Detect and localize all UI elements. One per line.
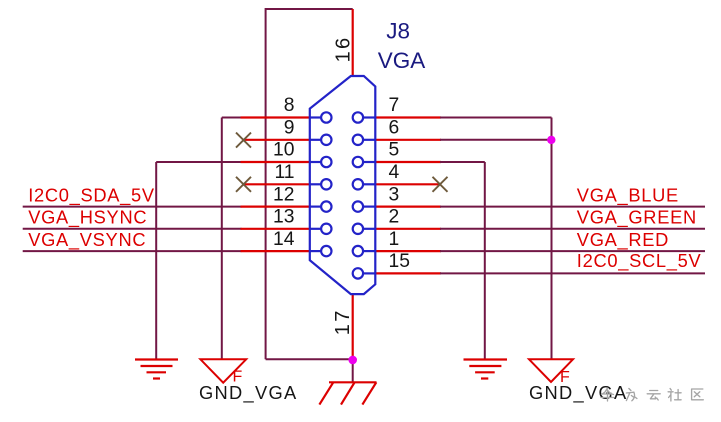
wire row3 VGA_BLUE [440,206,705,208]
wire row8 vertical to left GND_VGA port [221,118,223,360]
wire row5 horizontal [440,161,485,163]
pin 16 [352,9,354,76]
svg-text:12: 12 [273,184,294,205]
wire row10 vertical to left ground [155,162,157,359]
svg-text:4: 4 [389,162,400,183]
chassis ground [319,382,376,404]
wire row8 horizontal [222,117,242,119]
svg-text:2: 2 [389,207,400,228]
junction dot at shield node [348,356,357,365]
wire row1 VGA_RED [440,250,705,252]
pin 13 [241,228,310,230]
pin stubs and circles left column [310,112,331,256]
svg-text:7: 7 [389,95,400,116]
svg-text:1: 1 [389,229,400,250]
pin 2 [375,228,441,230]
pin 14 [241,250,310,252]
wire bottom horizontal to chassis junction [266,358,353,360]
svg-text:15: 15 [389,251,410,272]
wire row12 I2C0_SDA_5V [23,206,242,208]
ground right (signal gnd bars) [464,360,508,379]
pin 5 [375,161,441,163]
pin 1 [375,250,441,252]
svg-text:9: 9 [284,118,295,139]
power port GND_VGA right triangle [529,359,573,382]
pin 4 [375,183,441,185]
wire row13 VGA_HSYNC [23,228,242,230]
svg-text:I2C0_SDA_5V: I2C0_SDA_5V [28,184,155,206]
pin 11 [243,183,309,185]
svg-text:10: 10 [273,140,294,161]
wire row6 horizontal [440,139,552,141]
pin 8 [241,116,310,118]
svg-text:17: 17 [332,308,354,335]
power port GND_VGA left triangle [200,359,246,382]
wire row2 VGA_GREEN [440,228,705,230]
wire row10 horizontal [156,161,241,163]
wire row5 vertical to right ground [484,162,486,360]
pin 17 [352,294,354,360]
svg-text:13: 13 [273,207,294,228]
no-ERC cross on pin 4 [433,177,448,192]
svg-text:6: 6 [389,118,400,139]
svg-text:GND_VGA: GND_VGA [529,382,628,404]
no-ERC cross on pin 9 [236,133,251,148]
svg-text:I2C0_SCL_5V: I2C0_SCL_5V [577,250,702,272]
connector J8 body [310,76,376,294]
wire stub from junction down to chassis ground [352,359,354,382]
ground left (signal gnd bars) [135,360,178,379]
watermark [601,388,703,401]
svg-text:VGA: VGA [378,48,426,73]
svg-text:8: 8 [284,95,295,116]
wire top horizontal net of pin16 [266,8,353,10]
svg-text:3: 3 [389,184,400,205]
svg-text:J8: J8 [386,18,410,43]
no-ERC cross on pin 11 [236,177,251,192]
svg-text:16: 16 [332,36,354,63]
svg-text:VGA_HSYNC: VGA_HSYNC [28,207,147,229]
wire row7 horizontal [440,117,552,119]
svg-text:14: 14 [273,229,295,250]
svg-text:VGA_VSYNC: VGA_VSYNC [28,229,146,251]
pin 7 [375,116,441,118]
pin 10 [241,161,310,163]
pin 9 [243,139,309,141]
junction dot row6 [547,136,555,144]
pin 15 [375,272,441,274]
wire row15 I2C0_SCL_5V [440,272,705,274]
pin 6 [375,139,441,141]
wire row7 vertical to right GND_VGA port [551,118,553,360]
right pin numbers [389,95,410,272]
svg-text:VGA_BLUE: VGA_BLUE [577,184,679,206]
pin 3 [375,206,441,208]
svg-text:GND_VGA: GND_VGA [199,382,298,404]
pin stubs and circles right column [353,112,375,278]
svg-text:VGA_GREEN: VGA_GREEN [577,207,697,229]
svg-text:11: 11 [274,162,294,183]
left pin numbers [273,95,295,250]
svg-text:5: 5 [389,140,400,161]
svg-text:VGA_RED: VGA_RED [577,229,669,251]
wire row14 VGA_VSYNC [23,250,242,252]
wire left tall vertical from top to bottom shield net [265,8,267,359]
pin 12 [241,206,310,208]
